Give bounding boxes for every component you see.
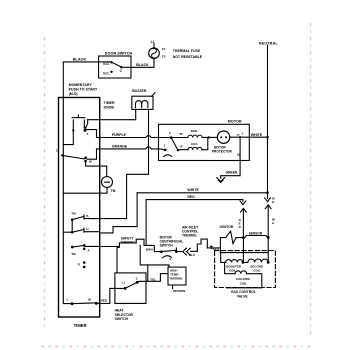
- wire contact 5 to buzzer left leg: [88, 119, 136, 121]
- wire TM-B to TM-H junction: [71, 220, 73, 233]
- svg-text:BLACK: BLACK: [136, 63, 149, 67]
- svg-text:TM: TM: [71, 212, 76, 216]
- svg-text:5: 5: [87, 132, 89, 136]
- svg-text:GAS CONTROL: GAS CONTROL: [231, 290, 256, 294]
- contact 5 dot lower: [84, 129, 87, 132]
- svg-text:NOT RESETABLE: NOT RESETABLE: [173, 55, 203, 59]
- svg-text:GREEN: GREEN: [226, 170, 238, 174]
- svg-text:PROTECTOR: PROTECTOR: [212, 150, 233, 154]
- svg-text:NEUTRAL: NEUTRAL: [259, 41, 279, 45]
- aux winding coil: [188, 147, 202, 149]
- wire H to WHITE staircase: [100, 193, 137, 233]
- junction run/aux: [208, 136, 210, 138]
- flame sensor: [245, 232, 268, 238]
- timer contact R: [78, 261, 86, 268]
- svg-text:IGNITOR: IGNITOR: [220, 225, 234, 229]
- buzzer striker arm: [152, 93, 155, 96]
- svg-text:D: D: [239, 225, 242, 229]
- svg-text:BRN: BRN: [146, 248, 153, 252]
- wire A contact to safety thermostat: [100, 243, 137, 247]
- timer enclosure box: [59, 98, 100, 318]
- svg-text:B: B: [86, 214, 89, 218]
- run winding coil: [188, 135, 202, 137]
- wire booster end down to holding coil: [225, 262, 235, 273]
- svg-text:THERMO.: THERMO.: [169, 277, 183, 281]
- motor terminal 1 dot: [164, 149, 167, 152]
- button leg left: [72, 120, 74, 129]
- svg-text:M: M: [88, 298, 91, 302]
- sensor element: [245, 236, 268, 238]
- ignitor resistive element zigzag: [220, 231, 242, 243]
- secondary coil: [243, 259, 270, 273]
- wire PURPLE timer to motor terminal 2: [86, 130, 96, 138]
- wire lead from C to box edge: [121, 66, 131, 68]
- svg-text:A: A: [87, 249, 90, 253]
- svg-text:MOTOR: MOTOR: [228, 119, 242, 123]
- svg-text:H: H: [86, 227, 89, 231]
- wire RED main horizontal: [146, 200, 243, 246]
- contact M dot upper: [84, 156, 87, 159]
- contact BLU dot: [175, 250, 178, 253]
- thermal fuse F1-F2: [149, 40, 166, 60]
- perforation dots left green: [44, 45, 46, 332]
- wire ORANGE timer to motor terminal 1: [97, 147, 165, 150]
- centrifugal start switch blade: [171, 138, 178, 151]
- svg-text:'B': 'B': [179, 132, 183, 136]
- svg-text:H: H: [272, 221, 274, 225]
- svg-text:SWITCH: SWITCH: [115, 317, 129, 321]
- wire holding coil return loop: [227, 274, 262, 288]
- wire push-button left leg to black bus: [63, 132, 73, 145]
- svg-text:BLACK: BLACK: [73, 58, 87, 62]
- svg-text:N.O.: N.O.: [103, 62, 110, 66]
- svg-text:HOLDING: HOLDING: [236, 277, 250, 281]
- junction neutral / white horizontal: [266, 191, 269, 194]
- contact 5 dot upper: [84, 127, 86, 129]
- svg-text:VALVE: VALVE: [237, 295, 249, 299]
- svg-text:F1: F1: [162, 47, 166, 51]
- wire GREEN motor G terminal to ground: [221, 137, 240, 178]
- timer contact TM-H: [72, 227, 100, 232]
- svg-text:1: 1: [164, 143, 166, 147]
- svg-text:1: 1: [241, 131, 243, 135]
- wire BLACK from door switch to timer box (L1 feed): [63, 62, 98, 97]
- contact A dot upper: [83, 244, 86, 247]
- junction red / ignitor: [242, 236, 245, 239]
- button leg right: [83, 120, 85, 128]
- svg-text:L1: L1: [151, 40, 155, 44]
- wire BLU to gas valve: [207, 247, 220, 249]
- svg-text:KNOB: KNOB: [104, 105, 115, 109]
- heat selector enclosure box: [115, 273, 146, 304]
- contact R dot upper: [83, 261, 86, 264]
- timer motor TM: [102, 177, 116, 194]
- svg-text:TIMER: TIMER: [74, 323, 87, 328]
- wire TM bottom to black bus: [63, 188, 107, 194]
- svg-text:RED: RED: [101, 299, 108, 303]
- wire buzzer right leg down to timer contact B: [100, 109, 149, 218]
- wire drop to YEL run: [147, 265, 149, 281]
- door switch enclosure box: [99, 56, 131, 78]
- ground: [217, 178, 225, 183]
- perforation dots bottom green: [49, 346, 312, 348]
- pin F1 dot: [153, 47, 155, 49]
- motor terminal 2 dot: [170, 136, 173, 139]
- timer contact TM-B: [71, 212, 100, 221]
- svg-text:BUZZER: BUZZER: [132, 89, 147, 93]
- svg-text:H: H: [272, 200, 274, 204]
- wire orange from contact M: [87, 149, 97, 159]
- contact L dot: [71, 302, 74, 305]
- svg-text:TM: TM: [71, 252, 76, 256]
- pin F2 dot: [153, 57, 155, 59]
- svg-text:C: C: [120, 69, 123, 73]
- wire H to box edge: [84, 231, 100, 233]
- high temp thermostat box: [168, 267, 186, 285]
- junction TM-H dot: [71, 231, 74, 234]
- wire safety junction down to high temp thermostat: [140, 245, 169, 267]
- junction secondary/wh: [267, 261, 270, 264]
- svg-text:WHITE: WHITE: [187, 188, 199, 192]
- switch blade TM to B: [72, 216, 84, 219]
- ignitor: [220, 225, 243, 253]
- timer motor body: [102, 177, 113, 188]
- svg-text:MOMENTARY: MOMENTARY: [69, 83, 93, 87]
- contact A dot lower: [83, 248, 86, 251]
- gas valve top wire: [220, 252, 268, 254]
- switch blade BRN to BLU: [161, 250, 176, 251]
- motor M1: [159, 119, 250, 160]
- gas control valve dashed enclosure: [215, 251, 276, 288]
- wire A branch down to heat selector: [117, 247, 119, 273]
- wire protector to terminal C: [230, 136, 249, 138]
- wire terminal 2 to run winding: [172, 137, 188, 139]
- push button bar: [72, 117, 85, 119]
- wire sensor taps down to coils: [242, 238, 244, 262]
- switch blade TM to A: [72, 245, 84, 247]
- connector break WH (chevrons): [265, 198, 271, 202]
- motor enclosure box: [159, 124, 250, 160]
- timer contact TM-A: [71, 244, 100, 256]
- svg-text:AUX.: AUX.: [191, 142, 199, 146]
- switch blade L to M: [72, 302, 96, 305]
- momentary push-to-start switch: [72, 115, 89, 136]
- svg-text:WHITE: WHITE: [251, 133, 263, 137]
- svg-text:F2: F2: [162, 55, 166, 59]
- timer contact L-M with blade: [67, 298, 98, 305]
- svg-text:ORANGE: ORANGE: [112, 145, 128, 149]
- svg-text:C: C: [136, 276, 139, 280]
- wire WH down to sensor: [267, 205, 269, 236]
- wire ignitor left riser: [219, 238, 221, 253]
- wire BLACK door switch to thermal fuse: [131, 59, 154, 68]
- svg-text:M: M: [89, 159, 92, 163]
- svg-text:L1: L1: [122, 281, 126, 285]
- timer motor inner mark: [105, 181, 110, 183]
- wire NEUTRAL bus: [267, 45, 269, 198]
- start switch contact dot: [177, 149, 179, 151]
- svg-text:BROWN: BROWN: [173, 289, 186, 293]
- svg-text:BLU: BLU: [189, 253, 196, 257]
- svg-text:PUSH TO START: PUSH TO START: [69, 88, 98, 92]
- start switch travel arc: [164, 155, 172, 157]
- wire contact M to timer motor TM: [86, 161, 107, 176]
- svg-text:2: 2: [169, 131, 171, 135]
- svg-text:RED: RED: [187, 195, 195, 199]
- travel arc: [163, 256, 172, 258]
- svg-text:RUN: RUN: [191, 129, 198, 133]
- black bus wire inside timer: [63, 97, 71, 304]
- wire run winding to junction: [202, 136, 208, 138]
- svg-text:TM: TM: [111, 189, 116, 193]
- booster coil winding: [226, 260, 243, 263]
- push button stem: [77, 115, 79, 118]
- svg-text:COIL: COIL: [240, 282, 247, 286]
- contact H tick: [83, 228, 85, 232]
- door switch S1: [99, 52, 133, 78]
- svg-text:YEL: YEL: [150, 277, 156, 281]
- wire YEL heat selector to high temp thermostat: [146, 274, 168, 282]
- perforation dots bottom pink: [42, 346, 312, 348]
- buzzer BZ1: [132, 89, 155, 109]
- svg-text:'A': 'A': [179, 145, 183, 149]
- wire BLU with connector chevrons: [178, 251, 182, 253]
- protector contact dot left: [220, 136, 222, 138]
- contact BLU tick: [175, 248, 177, 251]
- wire junction to protector: [210, 136, 217, 138]
- wire lead to N.O. terminal: [99, 61, 111, 63]
- safety thermostat: [121, 236, 161, 251]
- terminal L1 dot: [124, 287, 127, 290]
- holding coil: [225, 262, 262, 287]
- wire WHITE main horizontal: [137, 192, 266, 194]
- contact TM dot: [71, 218, 74, 221]
- motor terminal C dot: [239, 136, 241, 138]
- wire contact A to aux winding: [179, 149, 188, 151]
- wire RED contact M to heat selector L1: [96, 288, 124, 303]
- wire A to box edge: [84, 245, 100, 247]
- wire booster to secondary: [243, 261, 248, 263]
- svg-text:MOTOR: MOTOR: [214, 145, 227, 149]
- timer contact M with blade: [56, 148, 92, 163]
- contact dot left: [72, 129, 74, 131]
- wire B to box edge: [84, 218, 100, 220]
- holding coil winding: [235, 271, 247, 274]
- switch blade L1 to C: [125, 282, 137, 288]
- perforation dots right green: [310, 31, 312, 336]
- secondary coil winding: [248, 259, 268, 262]
- air inlet control thermostat: [182, 225, 207, 251]
- svg-text:THERMAL FUSE: THERMAL FUSE: [173, 49, 201, 53]
- switch blade C to M: [62, 155, 84, 159]
- terminal C dot: [136, 281, 139, 284]
- heat selector switch S2: [115, 273, 146, 304]
- wire buzzer left leg: [135, 109, 137, 119]
- terminal N.O.: [110, 61, 112, 63]
- wire bus tap to TM-H: [63, 231, 72, 233]
- contact BRN dot: [160, 250, 163, 253]
- protector contact dot right: [225, 136, 227, 138]
- connector break RED (chevrons): [242, 200, 244, 202]
- junction booster/red: [242, 261, 245, 264]
- wire WHITE motor to neutral: [249, 136, 266, 138]
- junction wh / sensor: [267, 236, 270, 239]
- thermostat bump element: [136, 239, 144, 245]
- wire to centrifugal switch BRN contact: [144, 245, 160, 251]
- high temp thermostat: [168, 267, 186, 289]
- svg-text:L: L: [67, 298, 69, 302]
- booster coil: [221, 253, 245, 273]
- wire contact 5 riser: [86, 120, 88, 129]
- wire L1 lead: [153, 44, 155, 48]
- contact TM dot: [71, 246, 74, 249]
- fuse element S-curve: [152, 48, 157, 58]
- switch blade TM to H: [72, 230, 84, 233]
- buzzer coil arcs: [136, 101, 148, 108]
- svg-text:3: 3: [169, 257, 171, 261]
- thermostat step element: [197, 239, 207, 251]
- perforation dots left pink: [44, 38, 46, 332]
- svg-text:DOOR SWITCH: DOOR SWITCH: [105, 52, 133, 56]
- buzzer enclosure box: [132, 96, 153, 109]
- terminal C: [120, 66, 122, 68]
- svg-text:THERMO.: THERMO.: [182, 234, 197, 238]
- contact R dot lower: [83, 266, 86, 269]
- junction neutral / motor white: [266, 136, 269, 139]
- terminal N.C.: [110, 71, 112, 73]
- switch blade N.O. to C: [112, 62, 122, 67]
- svg-text:SWITCH: SWITCH: [160, 244, 174, 248]
- motor centrifugal switch: [160, 235, 184, 260]
- buzzer coil center leg: [141, 104, 143, 108]
- svg-text:R: R: [78, 262, 81, 266]
- wire BROWN stub: [172, 285, 174, 289]
- contact M dot lower: [84, 160, 87, 163]
- motor protector body: [217, 131, 229, 143]
- svg-text:COIL: COIL: [253, 269, 260, 273]
- contact M dot: [95, 302, 98, 305]
- wire RED down to ignitor: [242, 209, 244, 237]
- svg-text:N.C.: N.C.: [103, 72, 109, 76]
- perforation dots right pink: [310, 24, 312, 336]
- svg-text:G: G: [237, 153, 240, 157]
- wire aux winding up to junction: [202, 139, 208, 150]
- fuse body circle: [149, 48, 160, 59]
- svg-text:THERMO.: THERMO.: [121, 241, 136, 245]
- svg-text:PURPLE: PURPLE: [112, 133, 127, 137]
- svg-text:(M-S): (M-S): [69, 92, 79, 96]
- contact B tick: [83, 215, 85, 219]
- pivot dot on bus: [61, 154, 63, 156]
- wire to booster coil: [221, 253, 226, 263]
- wire C lead to box edge: [137, 281, 146, 282]
